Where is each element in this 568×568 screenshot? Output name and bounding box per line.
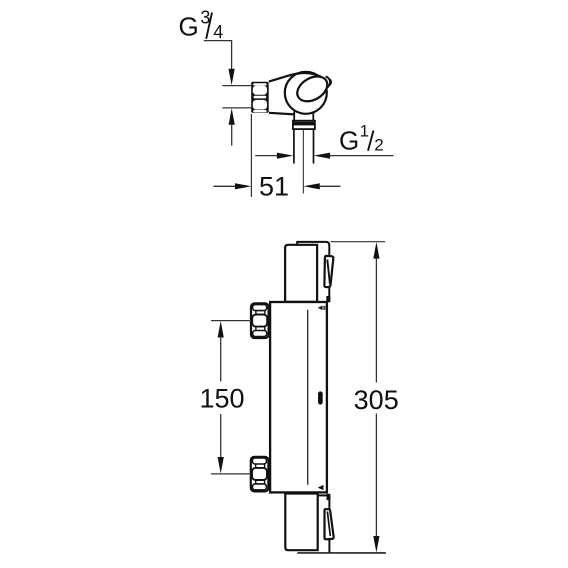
G 1/2 arrow pointing left xyxy=(314,153,330,159)
svg-text:2: 2 xyxy=(374,135,383,154)
G 1/2 dim right line xyxy=(329,155,393,157)
305 extension line top xyxy=(331,241,386,243)
305 arrow down xyxy=(373,536,379,553)
outlet pipe right line xyxy=(313,130,315,164)
svg-text:G: G xyxy=(179,11,199,41)
150 arrow up xyxy=(218,321,224,338)
bottom handle back bottom line xyxy=(297,552,386,554)
nut white bottom strip xyxy=(253,110,266,112)
bottom handle corner block xyxy=(327,494,331,500)
nut facet edge lines xyxy=(256,464,265,484)
G 1/2 dim left line xyxy=(255,155,278,157)
51 extension line (nut face) xyxy=(250,114,252,197)
bar top arrow ticks xyxy=(322,306,323,310)
label G 3/4 xyxy=(179,7,224,42)
svg-text:150: 150 xyxy=(199,384,244,414)
top handle lever inner line xyxy=(327,260,330,284)
outlet neck right line xyxy=(312,112,314,122)
hex nut G3/4 (black base) xyxy=(251,82,269,113)
svg-text:305: 305 xyxy=(354,385,399,415)
valve body sphere xyxy=(285,72,327,114)
nut facet edge lines xyxy=(256,311,265,331)
outlet pipe left line xyxy=(293,130,295,164)
label G 1/2 xyxy=(339,122,384,156)
305 dim line lower xyxy=(375,414,377,538)
bottom handle front face xyxy=(285,494,317,551)
svg-text:G: G xyxy=(339,126,359,156)
150 dim line upper xyxy=(220,337,222,382)
trapezoid top edge xyxy=(269,77,285,82)
nut middle facet xyxy=(252,315,267,327)
nut top band xyxy=(252,458,266,464)
bar top small arrow xyxy=(318,306,322,310)
150 extension line bottom xyxy=(211,473,251,475)
51 arrow pointing right xyxy=(235,183,251,189)
svg-text:4: 4 xyxy=(213,22,223,42)
51 dim right line xyxy=(319,185,340,187)
hex nut cold inlet xyxy=(251,457,269,492)
51 arrow pointing left xyxy=(303,183,319,189)
top handle lever xyxy=(324,256,333,287)
nut top band xyxy=(253,305,267,311)
arrow up below thread xyxy=(229,108,235,125)
pipe center line xyxy=(302,130,304,194)
nut white upper facet xyxy=(253,86,267,95)
collar outline xyxy=(293,121,315,129)
305 dim line upper xyxy=(375,258,377,383)
bar inner line xyxy=(307,310,309,485)
nut middle facet xyxy=(252,468,267,480)
150 extension line top xyxy=(211,320,251,322)
150 dim line lower xyxy=(220,414,222,458)
svg-text:1: 1 xyxy=(360,122,369,141)
G 1/2 arrow pointing right xyxy=(277,153,293,159)
bottom handle lever xyxy=(325,509,334,539)
nut white lower facet xyxy=(253,100,267,110)
leader line G 3/4 xyxy=(204,41,232,70)
collar black band xyxy=(293,122,315,126)
extension line thread bottom xyxy=(222,107,251,109)
nut white middle band xyxy=(254,96,267,99)
outlet neck left line xyxy=(293,112,295,122)
bar button blob xyxy=(318,391,323,404)
knob dome arc xyxy=(285,73,322,77)
trapezoid bottom edge xyxy=(269,113,294,115)
nut bottom band xyxy=(253,331,267,337)
top handle corner block xyxy=(326,296,330,302)
top handle front face xyxy=(285,245,317,302)
arrow up shaft xyxy=(231,124,233,146)
bar bottom small arrow xyxy=(318,485,324,490)
svg-text:51: 51 xyxy=(259,171,289,201)
top handle back surface xyxy=(297,242,329,302)
knob face ellipse xyxy=(293,71,332,106)
extension line thread top xyxy=(222,85,251,87)
nub screw cap xyxy=(326,77,330,88)
nut bottom band xyxy=(252,484,266,490)
nut white top strip xyxy=(253,83,266,85)
150 arrow down xyxy=(218,457,224,474)
bottom handle right edge xyxy=(328,496,330,553)
305 arrow up xyxy=(373,242,379,259)
bottom handle lever inner line xyxy=(327,512,330,537)
bottom handle side top edge xyxy=(318,494,327,496)
hex nut hot inlet xyxy=(251,303,269,338)
51 dim left line xyxy=(214,185,236,187)
arrow down on leader xyxy=(229,69,235,86)
nub inner arc xyxy=(327,79,331,86)
mixer bar body xyxy=(270,302,327,492)
